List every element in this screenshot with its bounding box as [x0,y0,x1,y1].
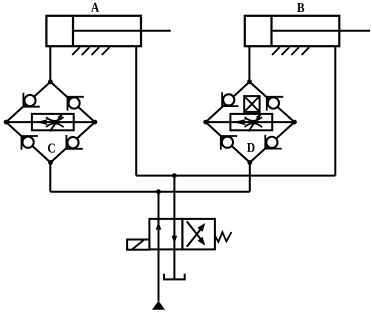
cylinder A body [46,16,170,46]
check valve D3 ball (bottom-left) [222,137,233,148]
bridge D diamond [206,82,295,163]
wire: pump riser through valve P [158,192,160,302]
flow line through bridge D [206,121,295,123]
mounting hatch under cylinder B [272,47,309,55]
valve left position down-flow arrow [172,236,178,244]
junction: bus1 / tank riser [172,173,177,178]
check valve C4 ball (bottom-right) [67,137,78,148]
wire: cylinder B rod port down [334,46,336,175]
wire: bridge D bottom drop [249,163,251,192]
throttle D flow arrow (left) [233,119,247,125]
throttle D venturi restriction [245,117,263,127]
check valve D1 seat [222,92,238,106]
valve left position up-flow arrow [156,222,162,230]
throttle valve C body [32,114,74,130]
shut-off square with X (bridge D) [244,96,259,112]
wire: cylinder A cap port to bridge C top [49,46,51,82]
return spring [215,232,232,242]
directional valve U1 left position box [149,219,182,250]
wire: cylinder A rod port down [135,46,137,175]
check valve D4 ball (bottom-right) [266,137,277,148]
check valve C3 seat [22,136,38,150]
check valve D4 seat [265,135,281,149]
check valve C1 ball (top-left) [24,95,35,106]
check valve C3 ball (bottom-left) [23,137,34,148]
label A [91,3,99,12]
node: bridge C bottom vertex [48,160,53,165]
junction: bus2 / pump riser [156,189,161,194]
node: bridge D top vertex [247,79,252,84]
check valve C4 seat [66,135,82,149]
flow line through bridge C [6,121,95,123]
wire: rod-end bus (bus1) [136,175,335,177]
valve right position crossed arrow (up) [187,229,201,247]
throttle valve D body [230,114,272,130]
node: bridge C right vertex [93,120,98,125]
node: bridge C top vertex [48,79,53,84]
label C [48,144,55,153]
solenoid actuator [127,240,149,250]
wire: tank riser through valve T [173,176,175,280]
mounting hatch under cylinder A [72,47,109,55]
pressure source (pump) triangle [152,301,165,310]
bridge C diamond [6,82,95,163]
label D [247,143,255,152]
throttle C venturi restriction [46,117,64,127]
check valve D2 ball (top-right) [268,97,279,108]
node: bridge D left vertex [203,120,208,125]
check valve D3 seat [221,136,237,150]
check valve D2 seat [267,97,283,111]
check valve C1 seat [23,93,39,107]
valve right position crossed arrow (down) [187,221,201,239]
tank symbol [164,274,185,280]
directional valve U1 right position box [182,219,215,250]
throttle D adjustment arrow [248,114,261,132]
cylinder B body [245,16,370,46]
wire: bridge bottom bus (bus2) [50,191,250,193]
check valve D1 ball (top-left) [223,94,234,105]
node: bridge D bottom vertex [247,160,252,165]
node: bridge C left vertex [4,120,9,125]
check valve C2 seat [68,97,84,111]
check valve C2 ball (top-right) [69,97,80,108]
wire: bridge C bottom drop [49,163,51,192]
label B [297,3,304,12]
throttle C flow arrow (left) [37,119,49,125]
wire: cylinder B cap port to bridge D top [248,46,250,82]
node: bridge D right vertex [292,120,297,125]
throttle C adjustment arrow [50,114,63,132]
